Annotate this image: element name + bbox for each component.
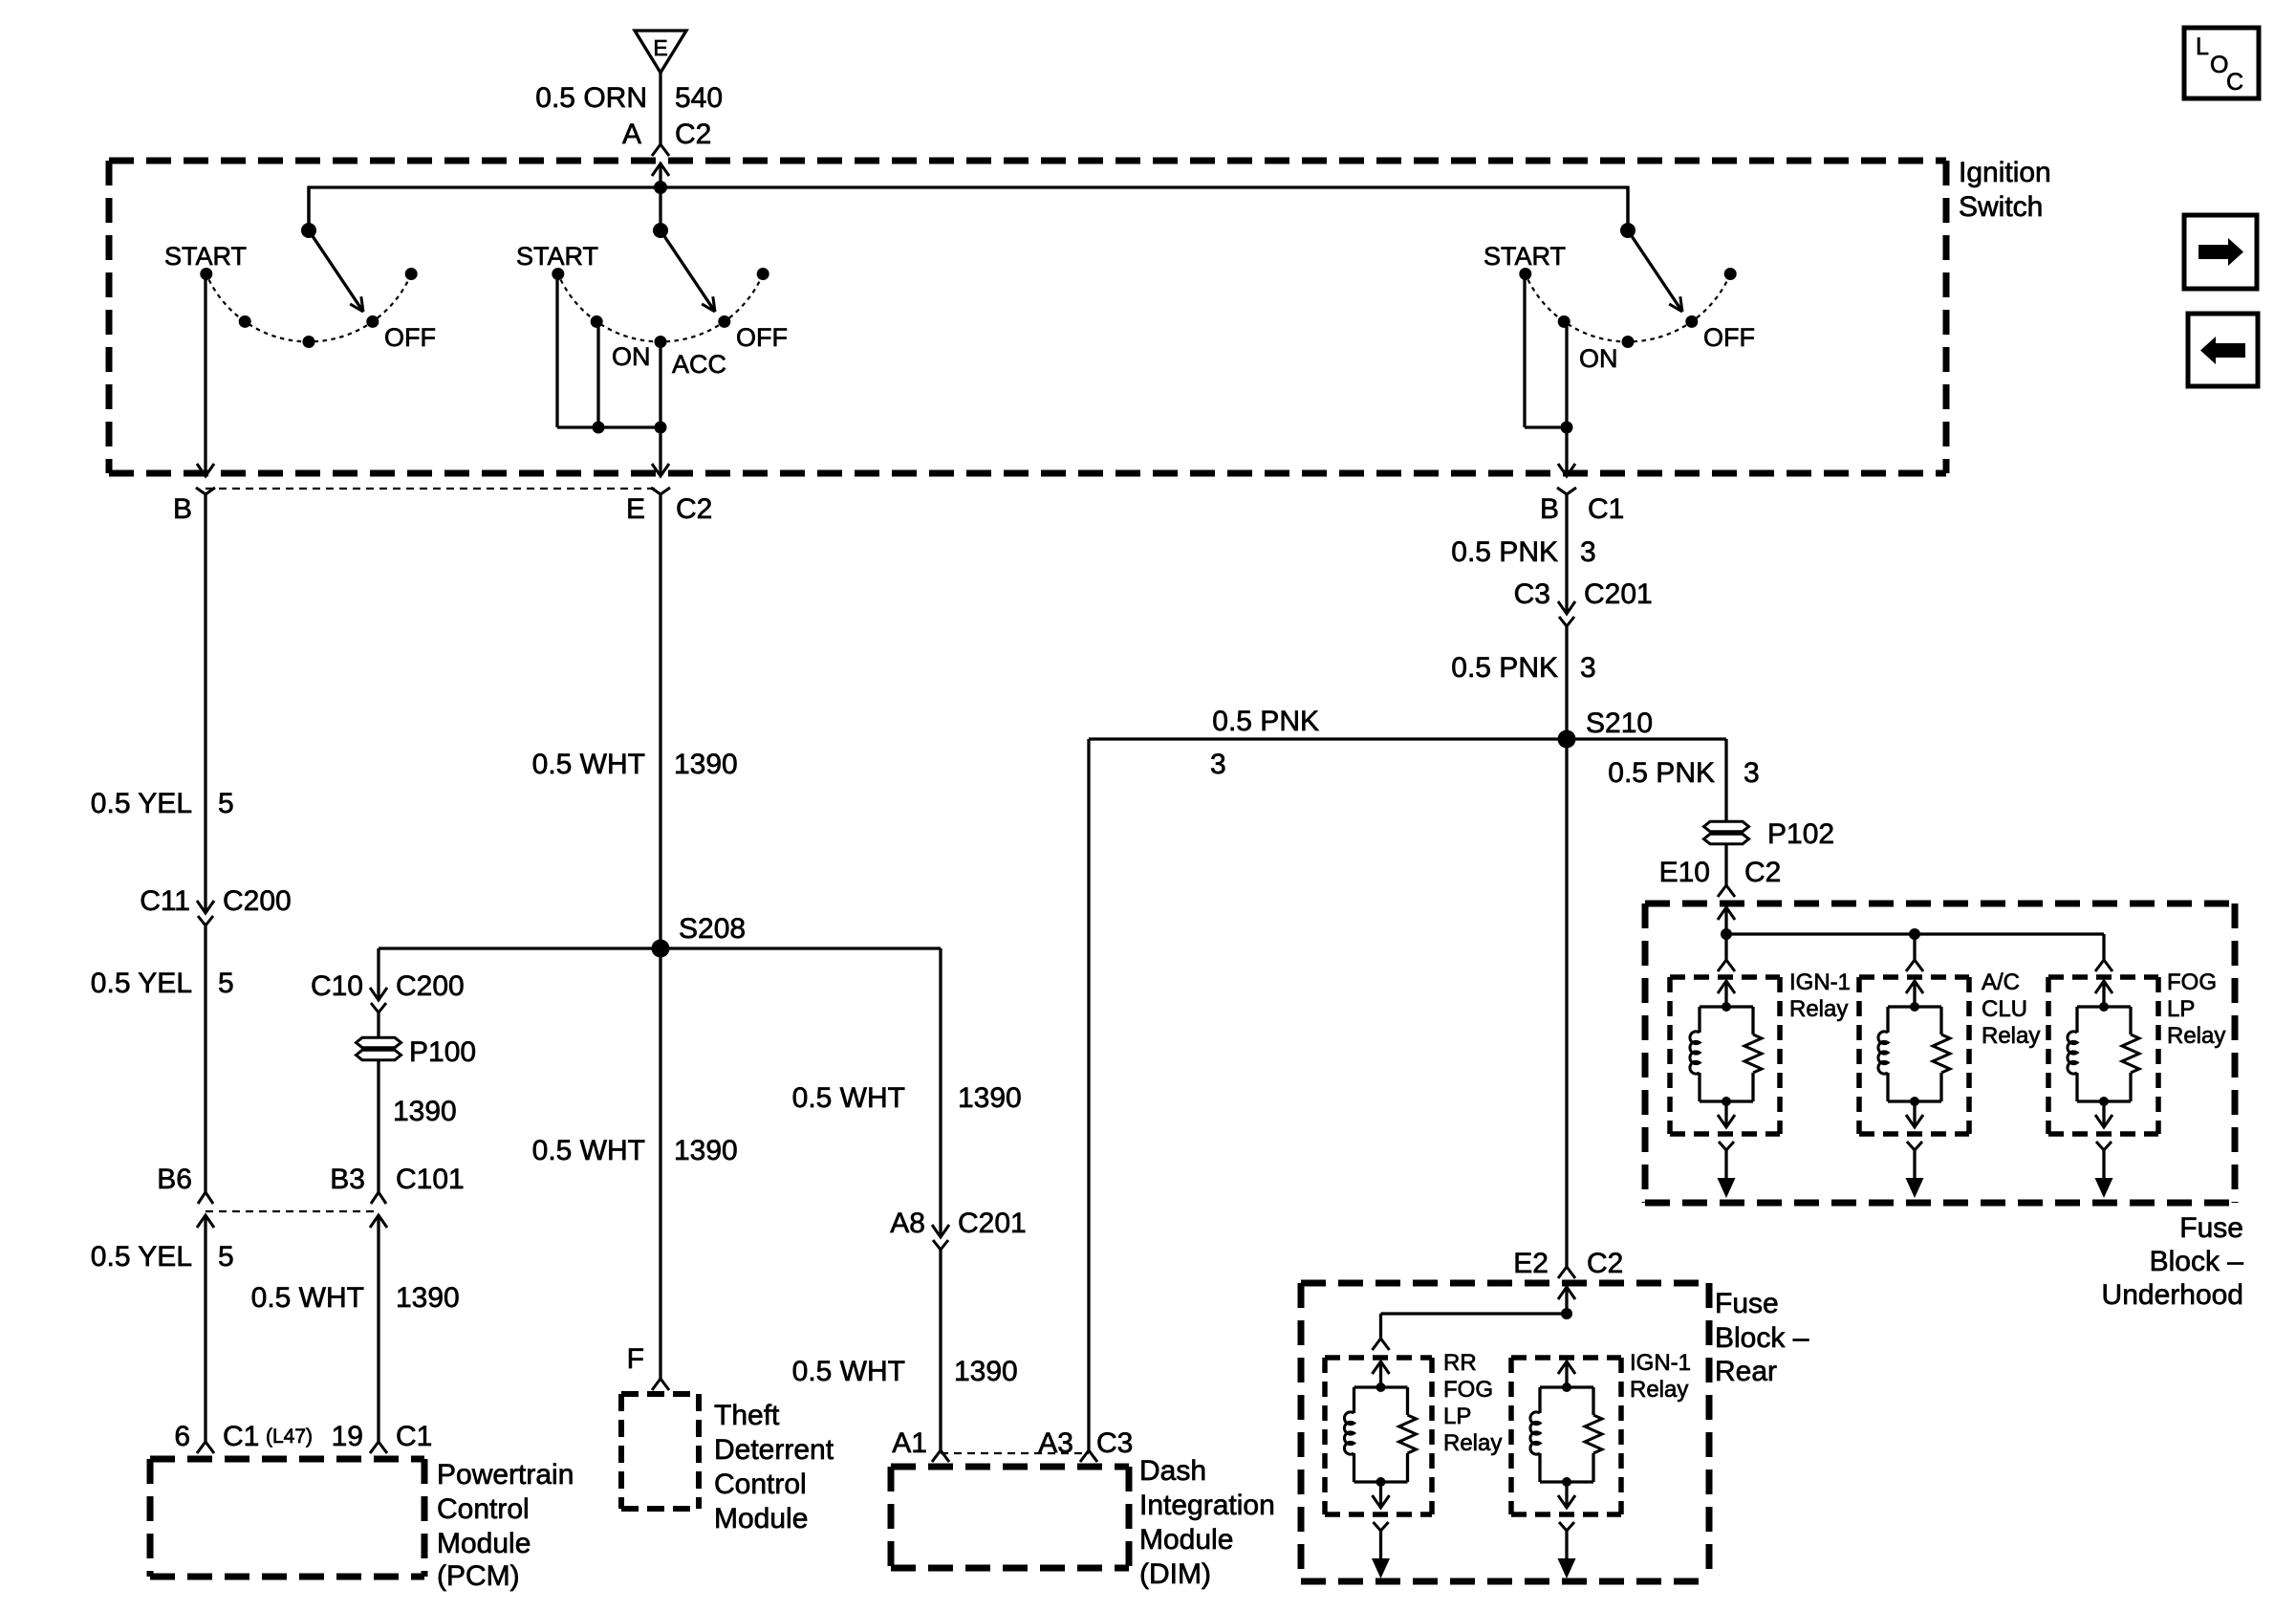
svg-text:ON: ON bbox=[612, 342, 651, 371]
svg-text:1390: 1390 bbox=[393, 1096, 457, 1127]
svg-text:A1: A1 bbox=[892, 1427, 927, 1459]
svg-text:FOG: FOG bbox=[2167, 969, 2217, 995]
svg-text:START: START bbox=[164, 242, 247, 271]
svg-text:Underhood: Underhood bbox=[2102, 1279, 2243, 1311]
svg-text:Module: Module bbox=[1139, 1524, 1233, 1556]
svg-text:C201: C201 bbox=[958, 1208, 1027, 1239]
svg-text:Block –: Block – bbox=[2150, 1246, 2244, 1277]
svg-text:Relay: Relay bbox=[1443, 1430, 1502, 1456]
svg-text:Integration: Integration bbox=[1139, 1490, 1275, 1521]
svg-text:C3: C3 bbox=[1096, 1427, 1133, 1459]
svg-text:C2: C2 bbox=[675, 119, 711, 150]
svg-text:C200: C200 bbox=[223, 885, 292, 917]
svg-text:5: 5 bbox=[218, 968, 234, 999]
svg-text:(L47): (L47) bbox=[266, 1426, 313, 1448]
svg-text:C1: C1 bbox=[396, 1421, 432, 1452]
svg-text:0.5 WHT: 0.5 WHT bbox=[251, 1282, 364, 1314]
svg-text:A3: A3 bbox=[1038, 1427, 1073, 1459]
svg-text:A: A bbox=[622, 119, 641, 150]
svg-text:0.5 ORN: 0.5 ORN bbox=[535, 82, 647, 114]
svg-text:C1: C1 bbox=[223, 1421, 259, 1452]
svg-text:ON: ON bbox=[1579, 344, 1618, 373]
svg-text:3: 3 bbox=[1580, 652, 1596, 684]
svg-text:B: B bbox=[173, 493, 192, 525]
svg-text:RR: RR bbox=[1443, 1350, 1477, 1376]
svg-text:3: 3 bbox=[1580, 536, 1596, 568]
svg-text:S210: S210 bbox=[1586, 708, 1653, 739]
svg-text:Powertrain: Powertrain bbox=[437, 1459, 574, 1491]
svg-text:Relay: Relay bbox=[1982, 1023, 2040, 1049]
svg-text:OFF: OFF bbox=[1703, 323, 1755, 352]
svg-text:F: F bbox=[627, 1343, 644, 1375]
svg-text:0.5 PNK: 0.5 PNK bbox=[1212, 706, 1319, 737]
svg-text:0.5 WHT: 0.5 WHT bbox=[532, 749, 645, 780]
svg-text:Fuse: Fuse bbox=[1715, 1288, 1779, 1319]
svg-text:0.5 WHT: 0.5 WHT bbox=[532, 1135, 645, 1166]
svg-text:Dash: Dash bbox=[1139, 1455, 1206, 1487]
svg-text:E10: E10 bbox=[1659, 857, 1710, 888]
svg-text:0.5 PNK: 0.5 PNK bbox=[1451, 652, 1558, 684]
svg-text:1390: 1390 bbox=[674, 1135, 738, 1166]
svg-text:IGN-1: IGN-1 bbox=[1789, 969, 1851, 995]
svg-text:1390: 1390 bbox=[674, 749, 738, 780]
svg-text:Relay: Relay bbox=[2167, 1023, 2225, 1049]
svg-text:Module: Module bbox=[437, 1528, 531, 1559]
svg-text:C2: C2 bbox=[1587, 1248, 1623, 1279]
svg-text:ACC: ACC bbox=[672, 350, 726, 379]
svg-text:19: 19 bbox=[332, 1421, 363, 1452]
svg-text:0.5 PNK: 0.5 PNK bbox=[1608, 757, 1715, 789]
svg-text:START: START bbox=[1484, 242, 1566, 271]
svg-text:CLU: CLU bbox=[1982, 996, 2027, 1022]
svg-text:0.5 WHT: 0.5 WHT bbox=[792, 1356, 905, 1387]
svg-text:P102: P102 bbox=[1767, 818, 1834, 850]
svg-text:B3: B3 bbox=[330, 1164, 365, 1195]
svg-text:OFF: OFF bbox=[736, 323, 788, 352]
svg-text:Ignition: Ignition bbox=[1959, 157, 2051, 188]
svg-text:C101: C101 bbox=[396, 1164, 465, 1195]
svg-text:(DIM): (DIM) bbox=[1139, 1558, 1211, 1590]
svg-text:Relay: Relay bbox=[1630, 1377, 1688, 1403]
svg-text:Switch: Switch bbox=[1959, 191, 2043, 223]
svg-text:C11: C11 bbox=[140, 885, 190, 917]
svg-text:S208: S208 bbox=[679, 913, 746, 945]
svg-text:E2: E2 bbox=[1513, 1248, 1549, 1279]
svg-text:1390: 1390 bbox=[396, 1282, 460, 1314]
svg-text:A8: A8 bbox=[890, 1208, 925, 1239]
svg-text:LP: LP bbox=[2167, 996, 2195, 1022]
svg-text:Deterrent: Deterrent bbox=[714, 1434, 834, 1466]
svg-text:C2: C2 bbox=[1744, 857, 1781, 888]
svg-text:C1: C1 bbox=[1588, 493, 1624, 525]
svg-text:Module: Module bbox=[714, 1503, 808, 1535]
svg-text:C3: C3 bbox=[1514, 578, 1550, 610]
svg-text:3: 3 bbox=[1744, 757, 1760, 789]
svg-text:FOG: FOG bbox=[1443, 1377, 1493, 1403]
svg-text:(PCM): (PCM) bbox=[437, 1560, 520, 1592]
svg-text:OFF: OFF bbox=[384, 323, 436, 352]
svg-text:IGN-1: IGN-1 bbox=[1630, 1350, 1691, 1376]
svg-text:C2: C2 bbox=[676, 493, 712, 525]
svg-text:0.5 YEL: 0.5 YEL bbox=[91, 968, 192, 999]
svg-text:540: 540 bbox=[675, 82, 723, 114]
svg-text:A/C: A/C bbox=[1982, 969, 2020, 995]
svg-text:0.5 PNK: 0.5 PNK bbox=[1451, 536, 1558, 568]
svg-text:Rear: Rear bbox=[1715, 1356, 1777, 1387]
svg-text:START: START bbox=[516, 242, 598, 271]
svg-text:C10: C10 bbox=[311, 970, 363, 1002]
svg-text:Block –: Block – bbox=[1715, 1322, 1809, 1354]
svg-text:B6: B6 bbox=[157, 1164, 192, 1195]
svg-text:0.5 WHT: 0.5 WHT bbox=[792, 1082, 905, 1114]
svg-text:C200: C200 bbox=[396, 970, 465, 1002]
svg-text:B: B bbox=[1540, 493, 1559, 525]
svg-text:5: 5 bbox=[218, 788, 234, 819]
svg-text:0.5 YEL: 0.5 YEL bbox=[91, 788, 192, 819]
svg-text:0.5 YEL: 0.5 YEL bbox=[91, 1241, 192, 1273]
svg-text:1390: 1390 bbox=[958, 1082, 1022, 1114]
svg-text:P100: P100 bbox=[409, 1036, 476, 1068]
svg-text:L: L bbox=[2196, 33, 2209, 60]
svg-text:6: 6 bbox=[174, 1421, 190, 1452]
svg-text:E: E bbox=[653, 35, 667, 60]
svg-text:E: E bbox=[626, 493, 645, 525]
svg-text:Control: Control bbox=[714, 1469, 807, 1500]
svg-text:1390: 1390 bbox=[954, 1356, 1018, 1387]
svg-text:5: 5 bbox=[218, 1241, 234, 1273]
svg-text:Fuse: Fuse bbox=[2179, 1212, 2243, 1244]
svg-text:Control: Control bbox=[437, 1493, 530, 1525]
svg-text:LP: LP bbox=[1443, 1404, 1471, 1429]
svg-text:Relay: Relay bbox=[1789, 996, 1848, 1022]
svg-text:3: 3 bbox=[1210, 749, 1226, 780]
svg-text:C: C bbox=[2226, 69, 2243, 96]
svg-text:C201: C201 bbox=[1584, 578, 1653, 610]
svg-text:Theft: Theft bbox=[714, 1400, 780, 1431]
